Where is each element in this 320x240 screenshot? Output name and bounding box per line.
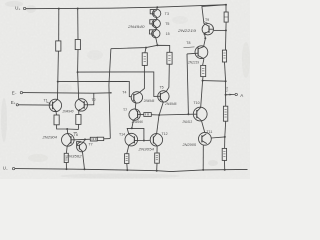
resistor R17 bbox=[222, 148, 226, 160]
node mid junction bbox=[158, 114, 160, 116]
wire emitter resistors to tail node bbox=[57, 124, 79, 129]
wire top supply rail bbox=[26, 5, 226, 9]
transistor T15 (diode stack bottom) bbox=[149, 28, 169, 38]
wire right column top bbox=[225, 5, 227, 12]
wire R2 to T2 collector bbox=[78, 50, 79, 100]
transistor T8 bbox=[184, 41, 208, 59]
node bbox=[57, 81, 59, 83]
wire T2 emitter to resistor bbox=[78, 111, 80, 115]
transistor T1 bbox=[44, 99, 62, 112]
scan grain overlay bbox=[0, 0, 250, 179]
wire down to T10 collector bbox=[201, 81, 203, 108]
resistor R13 (T8 emitter) bbox=[201, 65, 206, 76]
node chain junction bbox=[84, 138, 86, 140]
wire R12 to rail bbox=[156, 163, 158, 170]
paper texture smudges bbox=[1, 1, 250, 179]
wire left column B from rail to resistor bbox=[77, 9, 79, 40]
wire T11 emitter to rail bbox=[202, 145, 204, 170]
wire R11 to rail bbox=[126, 164, 129, 171]
wire R14 down bbox=[225, 22, 227, 30]
terminal U- bbox=[3, 165, 15, 171]
wire stub to resistor R3 bbox=[145, 48, 146, 53]
wire T12 collector riser bbox=[157, 115, 159, 134]
terminal A (output) bbox=[226, 93, 244, 98]
wire R4 to T5 collector bbox=[166, 64, 169, 91]
transistor T5 (diode stack middle) bbox=[150, 18, 170, 28]
wire E- to T2 base and bias chain bbox=[23, 92, 111, 95]
node rail junction dots bbox=[58, 4, 227, 10]
transistor T4 bbox=[122, 91, 142, 104]
terminal E+ bbox=[11, 100, 19, 106]
terminal E- bbox=[12, 91, 23, 96]
wire y=115 run to T10 base bbox=[159, 113, 193, 116]
resistor R4 bbox=[167, 52, 172, 64]
wire T11 collector branch to right column bbox=[211, 137, 225, 138]
resistor R2 bbox=[75, 40, 80, 50]
wire down to output node bbox=[225, 81, 227, 95]
wire bottom supply rail bbox=[15, 169, 248, 172]
wire stack bottom to junction bbox=[156, 38, 158, 46]
wire to chain resistors bbox=[85, 138, 90, 140]
resistor R6 (T2 emitter) bbox=[76, 115, 81, 125]
wire bias chain horizontal y=48 and corner down x=111 bbox=[111, 45, 170, 52]
wire T8 emitter bbox=[203, 59, 204, 66]
resistor R11 (T14 emitter) bbox=[125, 154, 129, 164]
wire T6 base run bbox=[74, 138, 85, 140]
transistor T10 bbox=[193, 101, 207, 121]
node mirror base tie bbox=[143, 140, 145, 142]
wire left column A from rail to resistor bbox=[58, 9, 60, 41]
transistor T7 (diode, bias mirror) bbox=[77, 139, 93, 151]
transistor T7b (second stage lower) bbox=[123, 108, 140, 120]
wire R7 to rail bbox=[65, 163, 67, 170]
wire E+ to T1 base bbox=[18, 104, 49, 106]
resistor R7 (T6 emitter) bbox=[64, 153, 68, 162]
terminal U+ bbox=[15, 6, 26, 12]
wire R15 to junction bbox=[225, 62, 226, 81]
wire T7b emitter down to mirror loop bbox=[132, 120, 134, 128]
transistor T3 (diode stack top) bbox=[150, 7, 169, 17]
wire T9 base stub bbox=[214, 29, 226, 31]
wire T9 collector branch from rail end bbox=[202, 5, 226, 27]
node T9 base junction bbox=[225, 29, 227, 31]
resistor R16 bbox=[223, 106, 227, 121]
wire T1 emitter to resistor bbox=[55, 111, 58, 115]
node bbox=[77, 71, 79, 73]
transistor T11 bbox=[199, 130, 213, 145]
resistor R8 (chain horizontal 1) bbox=[90, 137, 97, 141]
wire down to R16 bbox=[225, 95, 227, 106]
wire R17 to rail bbox=[224, 160, 226, 169]
wire R1 to T1 collector bbox=[57, 51, 60, 99]
wire T12 emitter bbox=[156, 146, 158, 153]
resistor R14 bbox=[224, 12, 228, 22]
transistor T6 bbox=[62, 133, 78, 147]
wire T10 emitter to T11 bbox=[202, 121, 205, 133]
resistor R1 bbox=[56, 41, 61, 51]
wire T1 collector to T4 base (y=82 run) bbox=[58, 81, 132, 96]
current mirror T14 (left) bbox=[119, 128, 150, 146]
wire down to R17 bbox=[224, 137, 226, 149]
transistor T2 bbox=[75, 98, 96, 111]
wire R3 to T4 collector bbox=[139, 65, 145, 93]
wire T5b emitter to node bbox=[159, 102, 163, 115]
resistor R15 bbox=[222, 50, 226, 62]
wire T8 base chain vertical to T10 base bbox=[187, 54, 188, 114]
wire branch to right column bbox=[203, 80, 226, 83]
wire R13 to junction bbox=[202, 77, 204, 81]
resistor R10 (horizontal, T7b base) bbox=[140, 114, 144, 116]
wire T2 collector to T5 base (y=72 run) bbox=[78, 72, 158, 97]
current mirror T12 (right) bbox=[150, 132, 167, 146]
transistor T9 bbox=[202, 18, 213, 35]
resistor R3 bbox=[142, 53, 147, 66]
wire T7 emitter to rail bbox=[82, 151, 84, 169]
wire R16 down bbox=[224, 121, 227, 137]
wire T6 emitter bbox=[65, 146, 68, 153]
resistor R5 (T1 emitter) bbox=[54, 115, 59, 125]
transistor T5b (second stage right) bbox=[158, 86, 169, 103]
resistor R12 (T12 emitter) bbox=[155, 153, 160, 163]
node rail dots bbox=[66, 168, 226, 172]
wire down to R15 bbox=[225, 30, 227, 50]
wire T9 emitter to T8 collector bbox=[204, 34, 206, 47]
wire chain to vertical riser bbox=[104, 138, 111, 140]
resistor R9 (chain horizontal 2) bbox=[97, 137, 103, 140]
wire T4 emitter to T7b collector bbox=[134, 103, 137, 109]
wire T14 emitter bbox=[127, 145, 129, 154]
